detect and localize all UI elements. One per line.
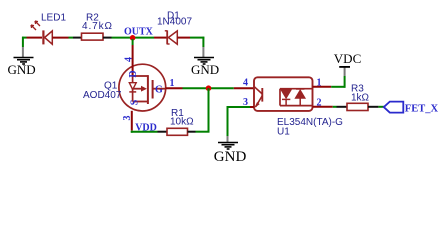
wire gate net xyxy=(166,87,183,89)
ground xyxy=(191,47,219,77)
power port VDC xyxy=(334,51,361,76)
svg-text:LED1: LED1 xyxy=(41,13,66,24)
wire xyxy=(22,37,27,39)
wire xyxy=(131,131,133,133)
port FET_X xyxy=(384,102,439,115)
svg-text:U1: U1 xyxy=(277,126,290,137)
wire xyxy=(378,106,384,108)
wire xyxy=(227,106,251,108)
svg-text:AOD407: AOD407 xyxy=(83,90,122,101)
node gate junction xyxy=(206,85,212,91)
resistor R1 xyxy=(167,108,194,135)
svg-text:4.7kΩ: 4.7kΩ xyxy=(82,21,113,32)
wire xyxy=(132,39,134,45)
wire xyxy=(344,76,346,88)
wire opto pin4 xyxy=(234,87,254,89)
resistor R2 pin xyxy=(73,37,82,39)
optocoupler U1 EL354N(TA)-G xyxy=(254,77,343,137)
resistor R2 pin xyxy=(103,37,112,39)
svg-text:1N4007: 1N4007 xyxy=(157,17,192,28)
node OUTX junction xyxy=(130,35,136,41)
svg-text:GND: GND xyxy=(8,62,36,77)
svg-text:D: D xyxy=(128,70,139,77)
resistor R1 pin xyxy=(158,131,168,133)
wire xyxy=(183,87,234,89)
transistor Q1 AOD407 xyxy=(83,64,166,111)
svg-text:1kΩ: 1kΩ xyxy=(351,92,370,103)
wire xyxy=(202,37,204,47)
wire source to VDD xyxy=(131,111,133,131)
wire xyxy=(190,37,204,39)
wire xyxy=(52,37,68,39)
wire VDD net xyxy=(131,131,158,133)
svg-text:4: 4 xyxy=(243,77,248,88)
diode D1 pin xyxy=(177,37,190,39)
LED LED1 xyxy=(31,13,66,45)
wire xyxy=(196,131,210,133)
ground xyxy=(214,136,247,165)
svg-text:S: S xyxy=(129,99,140,105)
diode D1 pin xyxy=(154,37,167,39)
svg-text:GND: GND xyxy=(214,149,247,165)
svg-text:10kΩ: 10kΩ xyxy=(170,116,194,127)
resistor R1 pin xyxy=(188,131,196,133)
svg-text:FET_X: FET_X xyxy=(405,103,439,114)
wire xyxy=(333,106,337,108)
resistor R2 xyxy=(82,13,113,41)
svg-text:VDC: VDC xyxy=(334,51,361,66)
wire opto pin1 xyxy=(313,86,332,88)
ground xyxy=(8,47,36,77)
wire xyxy=(208,88,210,132)
svg-text:GND: GND xyxy=(191,62,219,77)
wire xyxy=(22,37,24,47)
wire opto pin3 xyxy=(250,106,254,108)
svg-text:VDD: VDD xyxy=(135,122,157,133)
svg-text:G: G xyxy=(155,84,163,95)
diode D1 xyxy=(157,11,192,45)
wire xyxy=(112,37,155,39)
wire opto pin2 xyxy=(313,106,333,108)
resistor R3 pin xyxy=(337,106,348,108)
svg-text:4: 4 xyxy=(124,57,135,62)
wire xyxy=(331,86,345,88)
wire xyxy=(69,37,74,39)
resistor R3 pin xyxy=(368,106,378,108)
wire xyxy=(27,37,43,39)
wire xyxy=(227,106,229,136)
resistor R3 xyxy=(347,84,370,111)
wire xyxy=(132,45,134,65)
svg-text:OUTX: OUTX xyxy=(124,27,154,38)
